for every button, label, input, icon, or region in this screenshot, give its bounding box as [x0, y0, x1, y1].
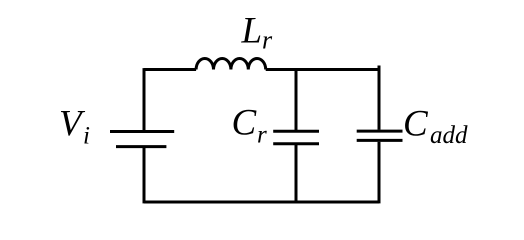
svg-text:i: i: [83, 123, 90, 150]
svg-text:r: r: [257, 122, 267, 149]
svg-text:V: V: [59, 104, 86, 145]
svg-text:r: r: [262, 26, 273, 55]
svg-text:C: C: [403, 103, 429, 144]
svg-text:C: C: [232, 103, 258, 144]
svg-text:add: add: [430, 122, 468, 149]
svg-text:L: L: [241, 11, 263, 52]
